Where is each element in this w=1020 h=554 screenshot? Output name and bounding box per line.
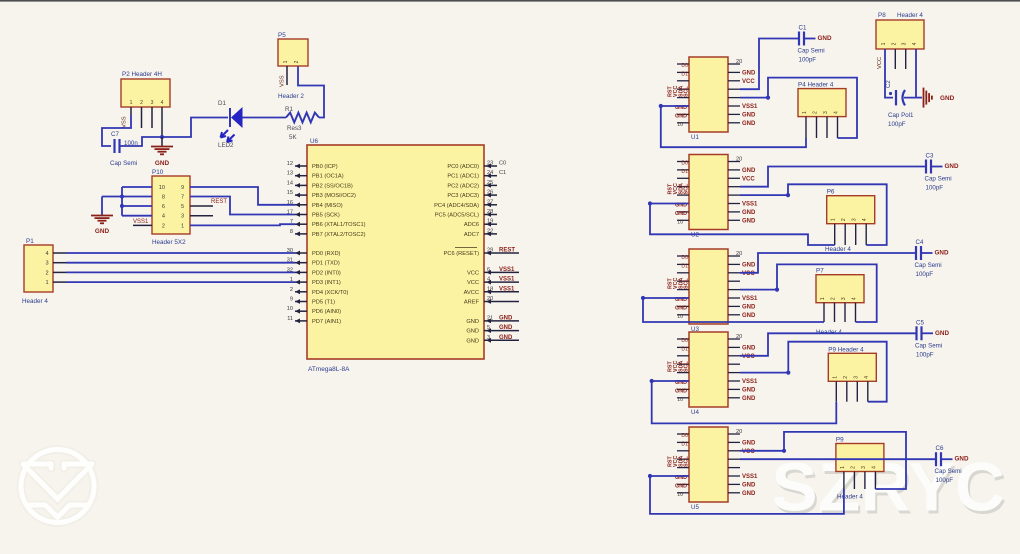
svg-text:U6: U6 <box>310 138 319 145</box>
svg-text:GND: GND <box>466 319 479 325</box>
svg-text:D0: D0 <box>681 255 688 261</box>
svg-text:1: 1 <box>130 100 133 106</box>
svg-text:3: 3 <box>853 376 859 379</box>
svg-text:GND: GND <box>675 483 687 489</box>
svg-text:8: 8 <box>162 195 165 201</box>
svg-text:U1: U1 <box>691 134 699 141</box>
svg-text:Cap Semi: Cap Semi <box>110 160 137 167</box>
svg-text:12: 12 <box>287 161 293 167</box>
svg-text:VSS1: VSS1 <box>133 219 149 225</box>
wire P10 pin7 to U6 PB5 <box>190 197 295 215</box>
connector P9 <box>836 444 884 472</box>
svg-text:2: 2 <box>294 60 300 63</box>
P2 pin stubs <box>130 107 132 115</box>
svg-text:2: 2 <box>162 223 165 229</box>
svg-text:PC1 (ADC1): PC1 (ADC1) <box>447 174 479 180</box>
wire U5 to capacitor C6 <box>740 458 936 460</box>
connector P5 <box>278 39 308 66</box>
LED D1 <box>229 108 231 127</box>
svg-text:REST: REST <box>211 199 227 205</box>
wire U5 to P9 pin 1 <box>650 476 844 514</box>
P5 pin stubs <box>286 66 288 85</box>
svg-text:GND: GND <box>742 313 756 319</box>
wire R1 to P5 <box>298 66 324 118</box>
svg-text:17: 17 <box>287 210 293 216</box>
connector P9 <box>828 353 876 381</box>
svg-text:SCL: SCL <box>684 86 690 97</box>
svg-text:AREF: AREF <box>464 300 480 306</box>
svg-text:C7: C7 <box>111 131 119 138</box>
svg-text:PB1 (OC1A): PB1 (OC1A) <box>312 174 344 180</box>
svg-text:1: 1 <box>881 42 887 45</box>
svg-text:21: 21 <box>487 315 493 321</box>
svg-text:GND: GND <box>955 456 969 463</box>
P6 pin stubs <box>834 224 836 245</box>
svg-text:100pF: 100pF <box>936 477 954 484</box>
svg-text:D0: D0 <box>681 338 688 344</box>
svg-text:GND: GND <box>742 121 756 127</box>
net label VSS1 at P10 pin2 <box>133 224 152 226</box>
svg-text:29: 29 <box>487 248 493 254</box>
wire U4 to P9 pin 1 <box>652 381 837 423</box>
wire P10 pin9 to U6 PB4 <box>190 187 295 205</box>
svg-text:VSS1: VSS1 <box>499 286 515 292</box>
svg-text:PB2 (SS/OC1B): PB2 (SS/OC1B) <box>312 183 353 189</box>
svg-text:PB0 (ICP): PB0 (ICP) <box>312 164 338 170</box>
svg-text:C1: C1 <box>499 170 506 176</box>
svg-text:Cap Semi: Cap Semi <box>925 176 952 183</box>
svg-text:18: 18 <box>487 286 493 292</box>
ground GND near P8 <box>923 88 925 108</box>
wire C2 to P8 pin4 and ground <box>904 49 916 98</box>
svg-text:VCC: VCC <box>742 271 755 277</box>
svg-text:SCL: SCL <box>684 183 690 194</box>
U1 pin stubs <box>677 63 689 65</box>
svg-text:5: 5 <box>181 204 184 210</box>
svg-text:2: 2 <box>891 42 897 45</box>
svg-text:7: 7 <box>181 195 184 201</box>
connector P2 <box>121 79 170 107</box>
svg-text:VSS1: VSS1 <box>499 277 515 283</box>
svg-text:GND: GND <box>742 210 756 216</box>
svg-text:PD3 (INT1): PD3 (INT1) <box>312 280 341 286</box>
svg-text:SCL: SCL <box>684 278 690 289</box>
svg-text:23: 23 <box>487 161 493 167</box>
svg-text:3: 3 <box>852 218 858 221</box>
svg-text:PD1 (TXD): PD1 (TXD) <box>312 261 340 267</box>
svg-text:25: 25 <box>487 180 493 186</box>
svg-text:Cap Semi: Cap Semi <box>798 48 825 55</box>
svg-text:GND: GND <box>742 396 756 402</box>
svg-text:GND: GND <box>935 250 949 257</box>
microcontroller U6 ATmega8L-8A <box>307 145 484 359</box>
svg-text:GND: GND <box>818 35 832 42</box>
connector P8 <box>876 20 924 49</box>
wires P1 to U6 PD0-PD3 <box>66 252 295 254</box>
svg-text:GND: GND <box>940 95 955 102</box>
svg-text:GND: GND <box>742 345 756 351</box>
svg-text:C4: C4 <box>916 239 924 246</box>
svg-text:PC2 (ADC2): PC2 (ADC2) <box>447 183 479 189</box>
svg-text:P9 Header 4: P9 Header 4 <box>828 346 864 353</box>
svg-text:9: 9 <box>290 297 293 303</box>
connector P1 <box>24 245 53 292</box>
svg-text:SCL: SCL <box>684 361 690 372</box>
svg-text:D1: D1 <box>681 441 688 447</box>
capacitor C2 polarized <box>895 90 897 105</box>
svg-text:20: 20 <box>487 296 493 302</box>
svg-text:GND: GND <box>466 329 479 335</box>
svg-text:GND: GND <box>95 228 110 235</box>
svg-text:100pF: 100pF <box>916 351 934 358</box>
svg-text:4: 4 <box>912 42 918 45</box>
svg-text:100pF: 100pF <box>916 271 934 278</box>
svg-text:GND: GND <box>499 315 513 321</box>
svg-text:VCC: VCC <box>742 449 755 455</box>
svg-text:VCC: VCC <box>742 79 755 85</box>
svg-text:3: 3 <box>823 111 829 114</box>
P9 pin stubs <box>835 381 837 401</box>
svg-text:PD2 (INT0): PD2 (INT0) <box>312 270 341 276</box>
wire U3 to P7 pin 4 <box>740 264 877 322</box>
svg-text:Header 4: Header 4 <box>837 494 863 501</box>
svg-text:30: 30 <box>287 248 293 254</box>
wire C7 to ground junction <box>120 118 228 147</box>
svg-text:Header 4: Header 4 <box>897 12 923 19</box>
svg-text:VSS1: VSS1 <box>742 104 758 110</box>
svg-text:GND: GND <box>742 440 756 446</box>
svg-text:VSS1: VSS1 <box>742 474 758 480</box>
svg-text:D1: D1 <box>681 71 688 77</box>
wire U1 to capacitor C1 <box>740 39 799 90</box>
svg-text:GND: GND <box>499 335 513 341</box>
svg-text:GND: GND <box>675 113 687 119</box>
svg-text:SCL: SCL <box>684 456 690 467</box>
svg-text:C2: C2 <box>886 80 892 88</box>
svg-text:P1: P1 <box>26 238 34 245</box>
svg-text:C0: C0 <box>499 161 506 167</box>
svg-text:4: 4 <box>45 251 48 257</box>
svg-text:LED2: LED2 <box>218 142 234 149</box>
P10 pin3 stub <box>190 215 213 217</box>
svg-text:4: 4 <box>862 218 868 221</box>
svg-text:PB4 (MISO): PB4 (MISO) <box>312 203 343 209</box>
svg-text:1: 1 <box>820 297 826 300</box>
svg-text:2: 2 <box>831 297 837 300</box>
svg-text:ADC7: ADC7 <box>464 232 479 238</box>
svg-text:ADC6: ADC6 <box>464 222 479 228</box>
connector P6 <box>827 196 875 224</box>
capacitor C4 <box>915 246 917 260</box>
P10 pin5 stub <box>190 205 213 207</box>
svg-text:9: 9 <box>181 185 184 191</box>
svg-text:1: 1 <box>802 111 808 114</box>
U4 pin stubs <box>677 338 689 340</box>
IC U3 <box>689 249 728 324</box>
IC U2 <box>689 155 728 230</box>
IC U4 <box>689 332 728 407</box>
svg-text:GND: GND <box>742 218 756 224</box>
svg-text:10: 10 <box>159 185 165 191</box>
wire U5 to P9 pin 4 <box>740 432 906 489</box>
IC U5 <box>689 427 728 502</box>
svg-text:2: 2 <box>45 270 48 276</box>
wire U1 to P4 pin 4 <box>740 78 857 138</box>
svg-text:6: 6 <box>487 267 490 273</box>
svg-text:20: 20 <box>736 157 742 163</box>
U6 right pins <box>484 165 497 167</box>
svg-text:4: 4 <box>864 376 870 379</box>
svg-text:28: 28 <box>487 209 493 215</box>
watermark logo <box>21 450 94 523</box>
svg-text:5: 5 <box>487 325 490 331</box>
svg-text:2: 2 <box>290 287 293 293</box>
wire U3 to capacitor C4 <box>740 253 916 273</box>
svg-text:20: 20 <box>736 251 742 257</box>
svg-text:AVCC: AVCC <box>464 290 479 296</box>
svg-text:VSS: VSS <box>280 75 286 87</box>
svg-text:Cap Semi: Cap Semi <box>935 468 962 475</box>
svg-text:P7: P7 <box>816 268 824 275</box>
svg-text:GND: GND <box>742 168 756 174</box>
svg-text:20: 20 <box>736 334 742 340</box>
svg-text:GND: GND <box>742 491 756 497</box>
connector P4 <box>798 89 846 117</box>
svg-text:8: 8 <box>290 229 293 235</box>
svg-text:4: 4 <box>852 297 858 300</box>
wire U4 to capacitor C5 <box>740 333 916 356</box>
svg-text:P10: P10 <box>152 169 164 176</box>
svg-text:C3: C3 <box>926 153 934 160</box>
svg-text:GND: GND <box>742 482 756 488</box>
svg-text:P8: P8 <box>878 12 886 19</box>
svg-text:VCC: VCC <box>742 354 755 360</box>
svg-text:GND: GND <box>742 387 756 393</box>
P7 pin stubs <box>823 303 825 322</box>
P8 pin stubs <box>894 49 896 69</box>
svg-text:PC0 (ADC0): PC0 (ADC0) <box>447 164 479 170</box>
svg-text:6: 6 <box>162 204 165 210</box>
svg-text:15: 15 <box>287 190 293 196</box>
svg-text:PB7 (XTAL2/TOSC2): PB7 (XTAL2/TOSC2) <box>312 232 366 238</box>
svg-text:7: 7 <box>290 219 293 225</box>
connector P10 <box>152 176 190 234</box>
wire P10 pin1 to U6 PB6 <box>190 224 295 225</box>
svg-text:GND: GND <box>742 70 756 76</box>
svg-text:GND: GND <box>742 112 756 118</box>
P4 pin stubs <box>805 117 807 138</box>
capacitor C7 <box>113 139 115 153</box>
capacitor C1 <box>798 32 800 46</box>
svg-text:VSS1: VSS1 <box>742 296 758 302</box>
svg-text:3: 3 <box>861 466 867 469</box>
svg-text:P5: P5 <box>278 32 286 39</box>
svg-text:U5: U5 <box>691 504 699 511</box>
svg-text:U4: U4 <box>691 409 699 416</box>
svg-text:PD6 (AIN0): PD6 (AIN0) <box>312 309 341 315</box>
svg-text:PD5 (T1): PD5 (T1) <box>312 300 335 306</box>
svg-text:3: 3 <box>181 214 184 220</box>
svg-text:Cap Semi: Cap Semi <box>915 342 942 349</box>
svg-text:24: 24 <box>487 170 493 176</box>
svg-text:VSS1: VSS1 <box>742 202 758 208</box>
svg-text:Res3: Res3 <box>287 125 302 132</box>
svg-text:3: 3 <box>151 100 154 106</box>
ground GND near P2 <box>161 137 163 146</box>
svg-text:4: 4 <box>871 466 877 469</box>
svg-text:2: 2 <box>850 466 856 469</box>
junction at ground <box>160 135 164 139</box>
svg-text:P2 Header 4H: P2 Header 4H <box>122 71 162 78</box>
U3 pin stubs <box>677 255 689 257</box>
capacitor C5 <box>915 326 917 340</box>
svg-text:ATmega8L-8A: ATmega8L-8A <box>308 366 350 373</box>
capacitor C3 <box>925 160 927 174</box>
svg-text:GND: GND <box>675 211 687 217</box>
svg-text:VCC: VCC <box>467 280 479 286</box>
P1 pin stubs <box>53 252 66 254</box>
svg-text:R1: R1 <box>285 106 293 113</box>
svg-text:1: 1 <box>181 223 184 229</box>
top frame line <box>0 0 1020 2</box>
svg-text:D1: D1 <box>681 169 688 175</box>
svg-text:D1: D1 <box>218 100 226 107</box>
svg-text:Cap Semi: Cap Semi <box>915 262 942 269</box>
svg-text:5K: 5K <box>289 134 297 141</box>
svg-text:VSS: VSS <box>122 116 128 128</box>
svg-text:2: 2 <box>843 376 849 379</box>
svg-text:D0: D0 <box>681 63 688 69</box>
svg-text:GND: GND <box>675 388 687 394</box>
svg-text:20: 20 <box>736 429 742 435</box>
svg-text:10: 10 <box>677 492 683 498</box>
svg-text:GND: GND <box>742 304 756 310</box>
svg-text:4: 4 <box>834 111 840 114</box>
svg-text:C5: C5 <box>916 319 924 326</box>
U2 pin stubs <box>677 161 689 163</box>
svg-text:VCC: VCC <box>742 176 755 182</box>
svg-text:P6: P6 <box>827 189 835 196</box>
svg-text:3: 3 <box>487 335 490 341</box>
capacitor C6 <box>935 452 937 466</box>
wire U4 to P9 pin 4 <box>740 342 887 402</box>
U6 left pins <box>295 165 307 167</box>
svg-text:D1: D1 <box>681 263 688 269</box>
svg-text:10: 10 <box>677 314 683 320</box>
svg-text:3: 3 <box>841 297 847 300</box>
svg-text:10: 10 <box>677 397 683 403</box>
svg-text:VCC: VCC <box>877 57 883 69</box>
svg-text:2: 2 <box>813 111 819 114</box>
svg-text:3: 3 <box>45 261 48 267</box>
svg-text:Header 5X2: Header 5X2 <box>152 239 186 246</box>
svg-text:10: 10 <box>677 122 683 128</box>
P9 pin stubs <box>843 472 845 490</box>
svg-text:3: 3 <box>902 42 908 45</box>
svg-text:22: 22 <box>487 228 493 234</box>
svg-text:D1: D1 <box>681 346 688 352</box>
svg-text:10: 10 <box>287 306 293 312</box>
connector P7 <box>816 275 864 303</box>
svg-text:4: 4 <box>162 214 165 220</box>
svg-text:Header 2: Header 2 <box>278 93 304 100</box>
svg-text:Header 4: Header 4 <box>22 298 48 305</box>
svg-text:PB6 (XTAL1/TOSC1): PB6 (XTAL1/TOSC1) <box>312 222 366 228</box>
svg-text:GND: GND <box>155 160 170 167</box>
wire U1 to P4 pin 1 <box>661 106 806 147</box>
IC U1 <box>689 57 728 132</box>
svg-text:C6: C6 <box>936 445 944 452</box>
svg-text:D0: D0 <box>681 433 688 439</box>
svg-text:PC3 (ADC3): PC3 (ADC3) <box>447 193 479 199</box>
wire to ground symbol <box>101 197 103 216</box>
wire U3 to P7 pin 1 <box>643 298 824 322</box>
svg-text:16: 16 <box>287 200 293 206</box>
ground GND near P10 <box>91 215 113 217</box>
svg-text:C1: C1 <box>799 25 807 32</box>
svg-text:PB5 (SCK): PB5 (SCK) <box>312 213 340 219</box>
svg-text:100pF: 100pF <box>888 121 906 128</box>
svg-text:10: 10 <box>677 219 683 225</box>
svg-text:VSS1: VSS1 <box>742 379 758 385</box>
svg-text:100pF: 100pF <box>799 57 817 64</box>
svg-text:GND: GND <box>742 262 756 268</box>
wire P8 pin1 to C2 <box>885 49 893 98</box>
svg-text:4: 4 <box>161 100 164 106</box>
svg-text:Cap Pol1: Cap Pol1 <box>888 112 914 119</box>
svg-text:GND: GND <box>935 330 949 337</box>
svg-text:100pF: 100pF <box>926 185 944 192</box>
svg-text:1: 1 <box>840 466 846 469</box>
svg-text:PB3 (MOSI/OC2): PB3 (MOSI/OC2) <box>312 193 356 199</box>
wire P2 pin1 to C7 <box>102 115 131 146</box>
svg-text:PC5 (ADC5/SCL): PC5 (ADC5/SCL) <box>435 213 479 219</box>
svg-text:32: 32 <box>287 267 293 273</box>
resistor R1 <box>286 113 319 123</box>
wire U2 to capacitor C3 <box>740 167 926 187</box>
svg-text:GND: GND <box>466 338 479 344</box>
svg-text:13: 13 <box>287 171 293 177</box>
svg-text:19: 19 <box>487 219 493 225</box>
wire U2 to P6 pin 1 <box>650 204 835 246</box>
svg-text:1: 1 <box>283 60 289 63</box>
svg-text:VSS1: VSS1 <box>499 267 515 273</box>
svg-text:PD4 (XCK/T0): PD4 (XCK/T0) <box>312 290 348 296</box>
svg-text:Header 4: Header 4 <box>825 246 851 253</box>
svg-text:PC4 (ADC4/SDA): PC4 (ADC4/SDA) <box>434 203 479 209</box>
svg-text:4: 4 <box>487 277 490 283</box>
svg-text:REST: REST <box>499 248 515 254</box>
P10 left wires to ground <box>122 186 152 188</box>
svg-text:26: 26 <box>487 190 493 196</box>
svg-text:D0: D0 <box>681 161 688 167</box>
svg-text:2: 2 <box>140 100 143 106</box>
wire U2 to P6 pin 4 <box>740 184 887 245</box>
svg-text:1: 1 <box>45 280 48 286</box>
svg-text:PD7 (AIN1): PD7 (AIN1) <box>312 319 341 325</box>
svg-text:1: 1 <box>831 218 837 221</box>
svg-text:20: 20 <box>736 59 742 65</box>
svg-text:GND: GND <box>499 325 513 331</box>
svg-text:2: 2 <box>841 218 847 221</box>
svg-text:11: 11 <box>287 316 293 322</box>
svg-text:PD0 (RXD): PD0 (RXD) <box>312 251 341 257</box>
svg-text:P4 Header 4: P4 Header 4 <box>798 82 834 89</box>
svg-text:P9: P9 <box>836 437 844 444</box>
svg-text:GND: GND <box>675 305 687 311</box>
svg-text:1: 1 <box>832 376 838 379</box>
svg-text:PC6 (RESET): PC6 (RESET) <box>444 251 480 257</box>
